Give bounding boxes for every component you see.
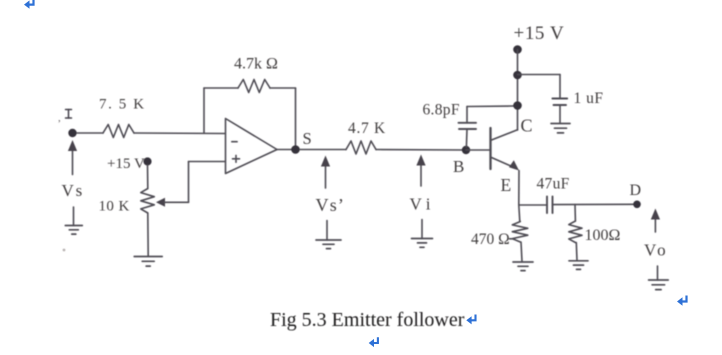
Vi probe arrow [420, 164, 422, 187]
svg-text:Fig 5.3 Emitter follower: Fig 5.3 Emitter follower [270, 309, 465, 331]
wire 100 to ground [575, 243, 578, 261]
node +15V dot [143, 157, 151, 165]
wire emitter to 47uF [519, 204, 547, 206]
wire S to R4.7K [300, 149, 346, 151]
svg-text:D: D [630, 182, 642, 199]
wire node I to R 7.5K [77, 132, 103, 134]
tick 470 label to resistor [510, 238, 515, 240]
ground (Vo) [657, 266, 659, 280]
svg-text:4.7 K: 4.7 K [348, 120, 386, 137]
wire 1uF to ground [559, 105, 561, 123]
emitter wire down [518, 171, 520, 206]
wire feedback to output node [270, 87, 296, 89]
resistor 470 ohm [519, 205, 520, 222]
potentiometer 10K [141, 189, 155, 214]
Vo probe arrow [654, 218, 656, 233]
node (collector junction) [513, 101, 522, 110]
svg-text:10 K: 10 K [99, 199, 130, 215]
svg-text:470 Ω: 470 Ω [471, 231, 510, 248]
resistor 4.7 K [346, 141, 376, 154]
svg-text:E: E [501, 175, 512, 195]
wire feedback riser [203, 88, 205, 133]
wire +15V rail down [517, 50, 519, 106]
svg-text:4.7k Ω: 4.7k Ω [234, 56, 278, 73]
wire R7.5K to op-amp inverting input [134, 132, 225, 135]
transistor Q1 [489, 128, 491, 169]
pot wiper arrow to op-amp + input [156, 198, 165, 207]
svg-text:Vo: Vo [644, 241, 669, 260]
wire B to transistor base [466, 149, 490, 151]
node S [277, 149, 296, 151]
svg-text:Vs’: Vs’ [316, 195, 346, 215]
svg-text:+15 V: +15 V [514, 23, 565, 44]
node (1uF branch junction) [513, 71, 522, 80]
svg-text:S: S [303, 129, 312, 148]
svg-text:,: , [58, 112, 61, 124]
svg-text:6.8pF: 6.8pF [423, 102, 460, 119]
wire R4.7K to node B [376, 149, 466, 152]
svg-text:47uF: 47uF [537, 176, 570, 193]
Vs source arrow [72, 149, 74, 175]
svg-text:C: C [521, 116, 533, 136]
ground (100) [569, 260, 588, 262]
svg-text:1 uF: 1 uF [574, 90, 604, 107]
label I [66, 110, 72, 119]
return mark (below caption) [369, 337, 378, 347]
ground (pot) [134, 256, 162, 258]
node I [68, 129, 76, 137]
svg-text:B: B [453, 157, 464, 176]
wire pot to ground [147, 213, 149, 256]
node B [462, 146, 470, 154]
op-amp minus input mark [232, 141, 237, 143]
wire to 1uF [518, 74, 561, 76]
node D [633, 201, 641, 209]
ground (Vs) [73, 207, 75, 226]
return mark (after caption) [466, 315, 475, 325]
svg-text:Vs: Vs [62, 181, 85, 200]
node +15V top dot [513, 45, 522, 54]
ground (1uF) [551, 123, 570, 125]
op-amp U1 [226, 119, 278, 174]
svg-text:+15 V: +15 V [107, 156, 145, 172]
svg-text:Vi: Vi [410, 195, 436, 214]
ground (Vi) [421, 220, 423, 239]
resistor 100 ohm [574, 205, 576, 221]
Vs' probe arrow [325, 165, 327, 189]
ground (Vs') [326, 221, 328, 241]
wire +15V to pot [147, 165, 149, 189]
resistor 4.7k ohm (feedback) [238, 80, 270, 93]
resistor 7.5K [103, 125, 134, 138]
svg-text:7. 5 K: 7. 5 K [99, 97, 146, 113]
svg-text:100Ω: 100Ω [585, 227, 621, 244]
op-amp plus input mark [233, 158, 240, 160]
return mark (right, below Vo) [677, 296, 687, 306]
return mark (top-left, clipped) [24, 0, 34, 9]
capacitor 1uF [552, 98, 567, 100]
wire 470 to ground [521, 242, 522, 262]
wire 47uF to node D [553, 203, 634, 205]
faint speck [63, 249, 66, 252]
ground (470) [513, 261, 533, 263]
